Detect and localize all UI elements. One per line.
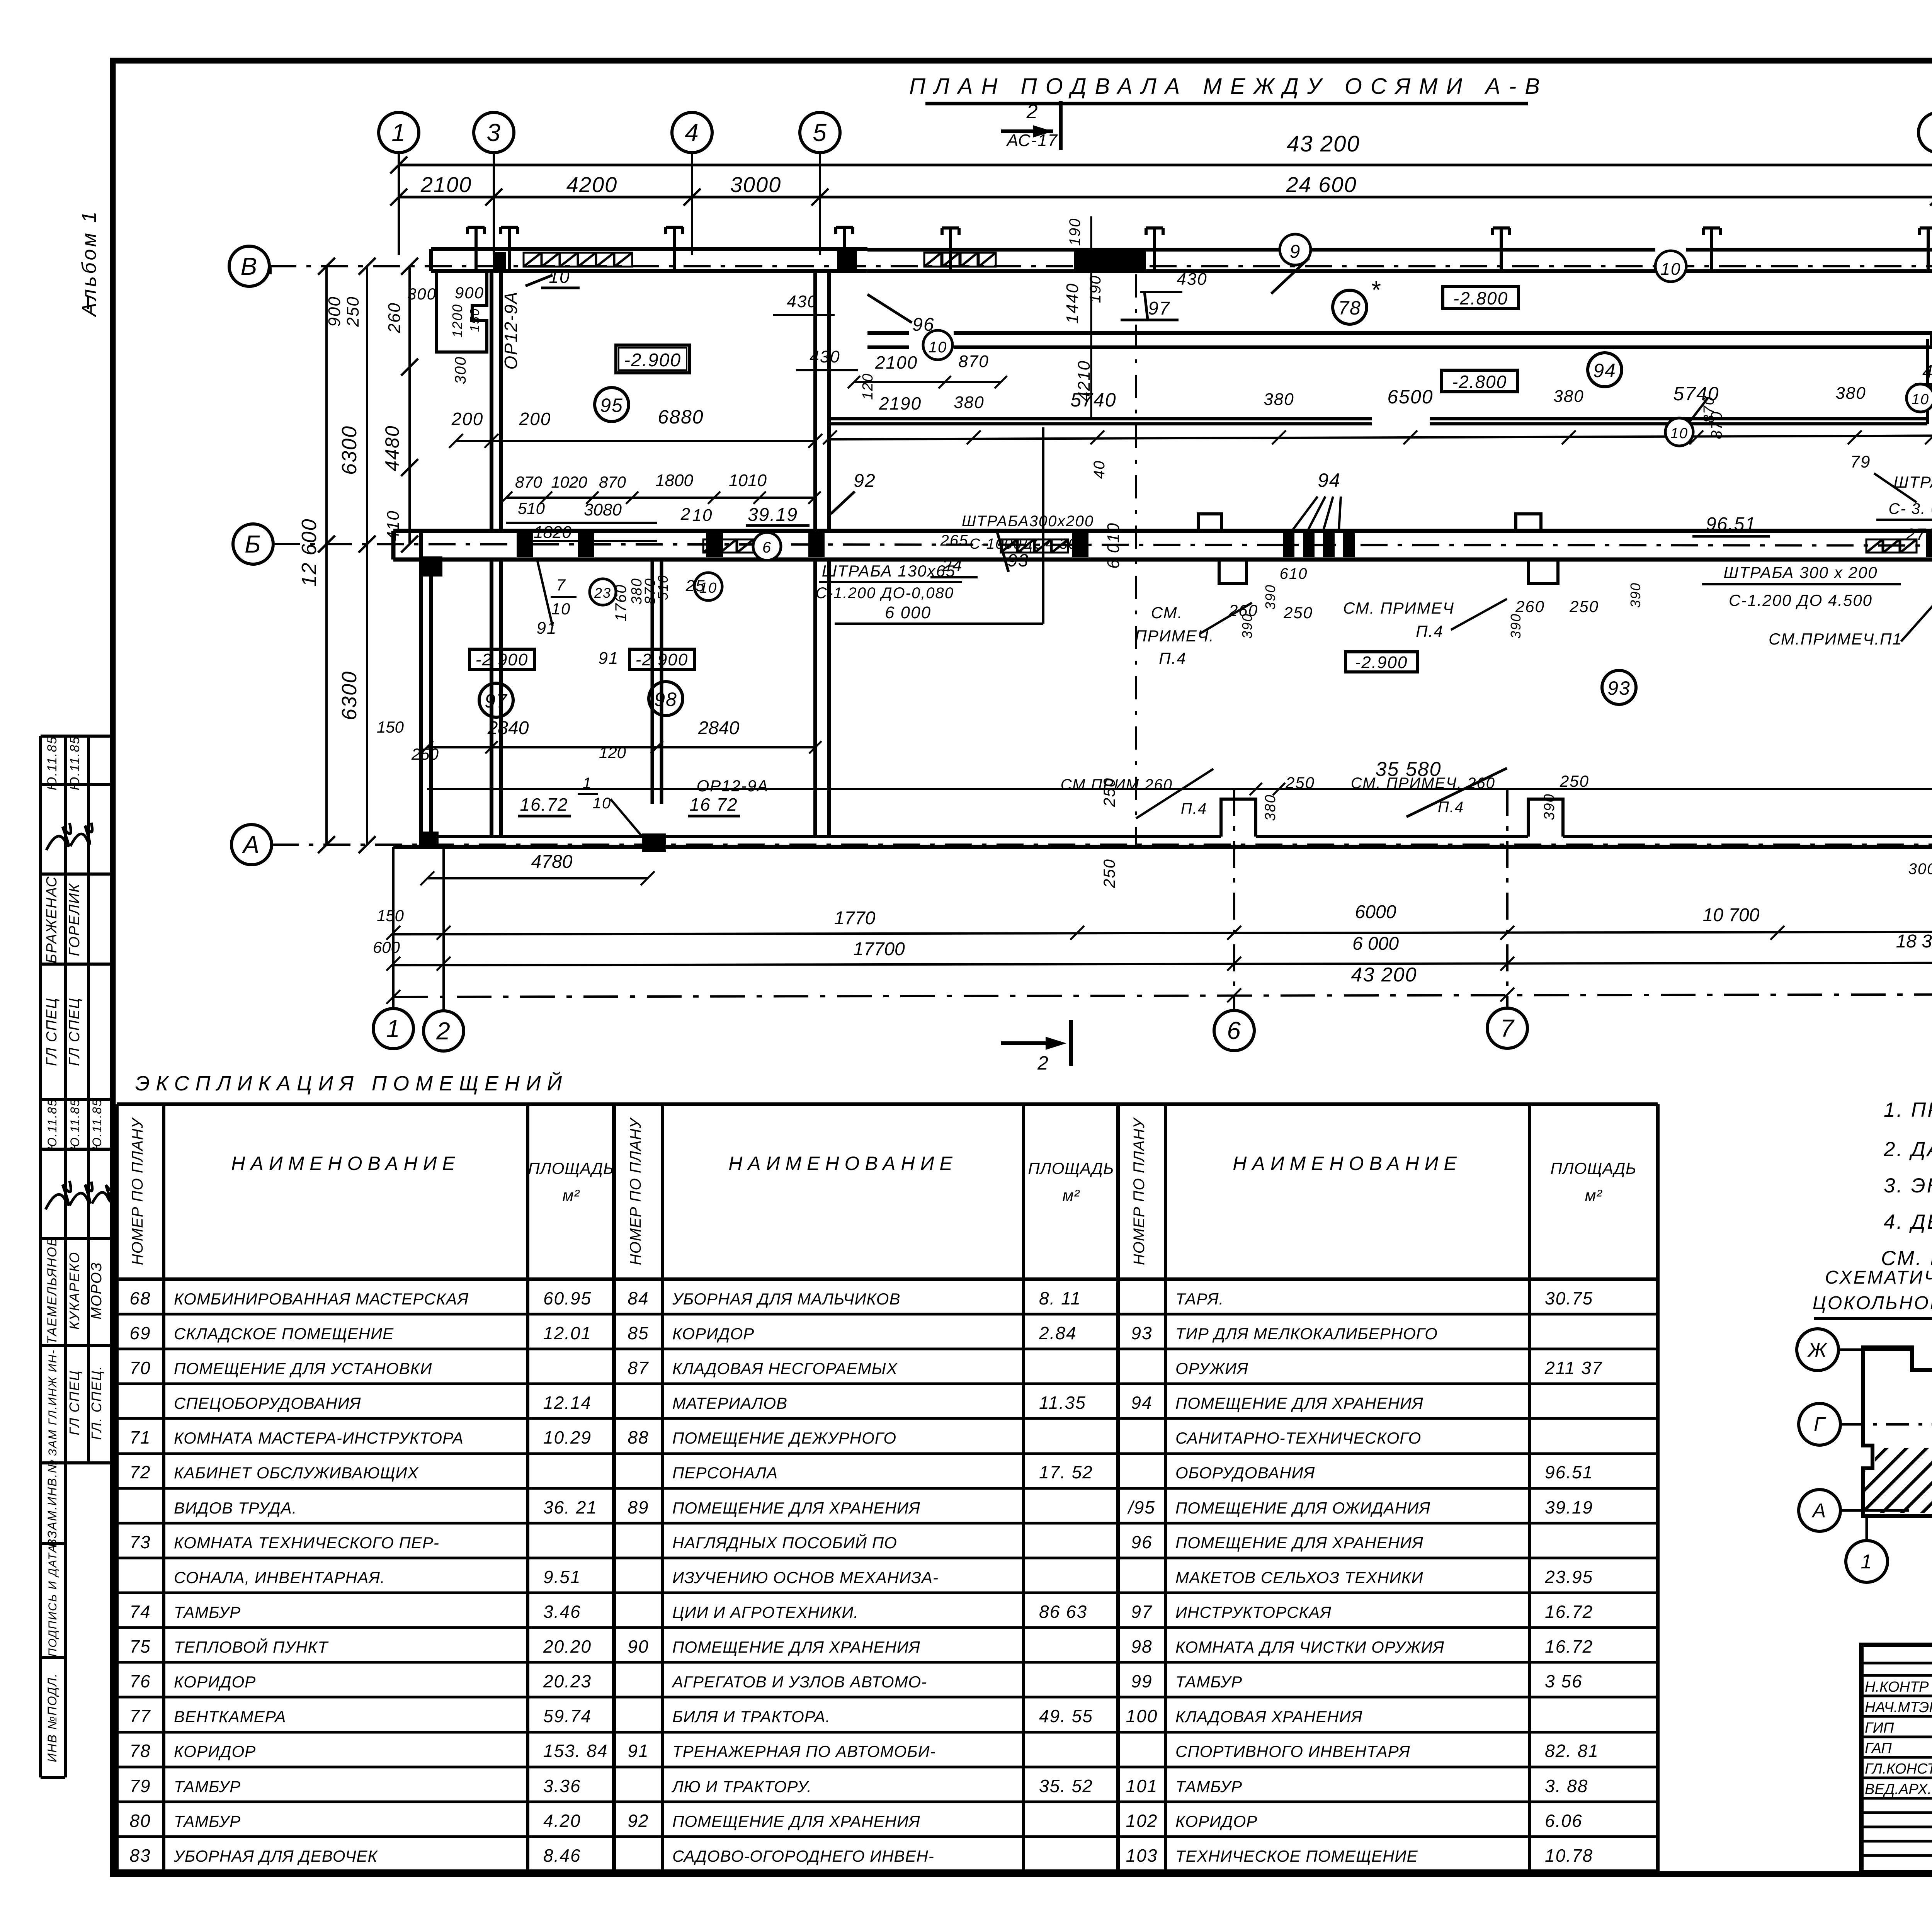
bottom axis bubbles	[373, 789, 1932, 1051]
svg-text:ПОМЕЩЕНИЕ ДЛЯ УСТАНОВКИ: ПОМЕЩЕНИЕ ДЛЯ УСТАНОВКИ	[174, 1359, 432, 1378]
svg-text:96: 96	[1131, 1532, 1152, 1552]
small circle 6 on B wall	[753, 532, 781, 560]
svg-text:КУКАРЕКО: КУКАРЕКО	[66, 1252, 82, 1330]
svg-text:Г: Г	[1814, 1413, 1826, 1436]
structural mark 10 corridor opening	[923, 330, 952, 360]
svg-text:ЗАМ ГЛ.ИНЖ ИН-: ЗАМ ГЛ.ИНЖ ИН-	[46, 1349, 59, 1456]
svg-text:АС-17: АС-17	[1006, 131, 1058, 150]
svg-text:16.72: 16.72	[520, 794, 568, 815]
svg-text:95: 95	[600, 395, 623, 416]
svg-text:6: 6	[762, 539, 772, 556]
labels 96 97 with leaders	[867, 292, 1179, 335]
svg-text:380: 380	[1835, 384, 1866, 403]
svg-text:870: 870	[599, 473, 626, 491]
svg-text:77: 77	[129, 1706, 151, 1726]
svg-text:250: 250	[1283, 604, 1313, 622]
svg-text:4210: 4210	[1075, 360, 1094, 401]
stamp label inv n podl	[45, 1673, 59, 1762]
svg-text:НАИМЕНОВАНИЕ: НАИМЕНОВАНИЕ	[1233, 1153, 1462, 1174]
svg-text:А: А	[241, 831, 260, 859]
svg-text:250: 250	[1100, 859, 1118, 888]
svg-text:3 56: 3 56	[1545, 1671, 1583, 1691]
svg-text:-2.800: -2.800	[1453, 288, 1508, 308]
svg-text:260: 260	[1515, 597, 1545, 616]
svg-text:200: 200	[451, 409, 484, 429]
svg-text:102: 102	[1126, 1811, 1158, 1831]
svg-text:6 000: 6 000	[1352, 934, 1399, 954]
svg-text:25: 25	[685, 577, 706, 595]
title block frame	[1861, 1645, 1932, 1872]
top axis bubbles	[379, 112, 1932, 255]
svg-text:В: В	[241, 252, 258, 280]
svg-text:КОРИДОР: КОРИДОР	[174, 1742, 256, 1760]
svg-text:Ж: Ж	[1807, 1339, 1828, 1361]
svg-text:35. 52: 35. 52	[1039, 1776, 1093, 1796]
svg-text:59.74: 59.74	[543, 1706, 592, 1726]
shtraba 300x200 right	[1702, 563, 1932, 648]
svg-text:10: 10	[593, 795, 612, 812]
svg-text:КОРИДОР: КОРИДОР	[1175, 1812, 1257, 1830]
svg-text:С-1000ДО4 300: С-1000ДО4 300	[969, 536, 1086, 552]
svg-text:3. 88: 3. 88	[1545, 1776, 1588, 1796]
svg-text:92: 92	[628, 1811, 649, 1831]
level box -2.800 room 94	[1442, 370, 1517, 392]
svg-text:86 63: 86 63	[1039, 1602, 1087, 1622]
svg-text:3.36: 3.36	[543, 1776, 581, 1796]
svg-text:260: 260	[385, 302, 404, 333]
svg-text:ПОМЕЩЕНИЕ ДЛЯ ХРАНЕНИЯ: ПОМЕЩЕНИЕ ДЛЯ ХРАНЕНИЯ	[672, 1638, 920, 1656]
top dim line axis spacings	[390, 172, 1932, 206]
corner niche detail top left	[407, 270, 487, 384]
svg-text:6 000: 6 000	[885, 603, 931, 622]
pilasters above south wall	[1221, 799, 1563, 837]
svg-text:1. ПРОЕМ ЗАКЛАДЫВАЕТСЯ НА ГЛИН: 1. ПРОЕМ ЗАКЛАДЫВАЕТСЯ НА ГЛИНЯНОМ РАСТВ…	[1884, 1099, 1932, 1121]
svg-text:КОРИДОР: КОРИДОР	[672, 1325, 754, 1343]
axis line B	[229, 242, 1932, 286]
svg-text:69: 69	[129, 1323, 151, 1343]
corner piers lower hall	[421, 556, 442, 849]
rotated dims near axis 5	[860, 216, 1104, 417]
title block left grid	[1861, 1645, 1932, 1872]
svg-text:-2 900: -2 900	[476, 650, 529, 669]
svg-text:250: 250	[1569, 597, 1599, 616]
structural mark 9 on north wall	[1271, 234, 1311, 294]
level box -2.900 room 97	[469, 649, 534, 669]
svg-text:ПОМЕЩЕНИЕ ДЛЯ ХРАНЕНИЯ: ПОМЕЩЕНИЕ ДЛЯ ХРАНЕНИЯ	[672, 1499, 920, 1517]
svg-text:98: 98	[1131, 1636, 1152, 1656]
svg-text:93: 93	[1007, 550, 1029, 570]
svg-text:24 600: 24 600	[1286, 172, 1357, 197]
svg-text:3080: 3080	[584, 500, 622, 519]
svg-text:1200: 1200	[449, 304, 465, 338]
svg-text:73: 73	[129, 1532, 151, 1552]
svg-text:Ю.11.85: Ю.11.85	[68, 1099, 82, 1150]
svg-text:НАИМЕНОВАНИЕ: НАИМЕНОВАНИЕ	[728, 1153, 958, 1174]
svg-text:23: 23	[594, 585, 611, 601]
label 94 with fan leaders	[1293, 469, 1341, 530]
svg-text:89: 89	[628, 1497, 649, 1517]
svg-text:ГЛ.КОНСТР.: ГЛ.КОНСТР.	[1865, 1761, 1932, 1777]
svg-text:САДОВО-ОГОРОДНЕГО ИНВЕН-: САДОВО-ОГОРОДНЕГО ИНВЕН-	[672, 1847, 934, 1865]
svg-text:4780: 4780	[531, 852, 573, 872]
svg-text:м²: м²	[1585, 1186, 1603, 1204]
small circle 10 room 94 right	[1665, 396, 1717, 446]
svg-text:ТАМБУР: ТАМБУР	[174, 1603, 241, 1621]
svg-text:4: 4	[685, 119, 699, 146]
svg-text:2: 2	[1026, 100, 1039, 123]
svg-text:АГРЕГАТОВ И УЗЛОВ АВТОМО-: АГРЕГАТОВ И УЗЛОВ АВТОМО-	[671, 1673, 927, 1691]
room label 78	[1333, 276, 1381, 324]
svg-text:САНИТАРНО-ТЕХНИЧЕСКОГО: САНИТАРНО-ТЕХНИЧЕСКОГО	[1175, 1429, 1421, 1447]
area label 49.60	[1915, 362, 1932, 384]
OR12-9A label left	[501, 267, 580, 370]
svg-text:ПОМЕЩЕНИЕ ДЛЯ ХРАНЕНИЯ: ПОМЕЩЕНИЕ ДЛЯ ХРАНЕНИЯ	[1175, 1534, 1423, 1552]
area label 96.51	[1692, 514, 1770, 536]
svg-text:430: 430	[1177, 270, 1207, 289]
svg-text:23.95: 23.95	[1544, 1567, 1593, 1587]
svg-text:250: 250	[1560, 772, 1589, 790]
svg-text:1440: 1440	[1063, 283, 1082, 324]
svg-text:ЦОКОЛЬНОГО ЭТАЖА И ПОДВАЛА.: ЦОКОЛЬНОГО ЭТАЖА И ПОДВАЛА.	[1813, 1293, 1932, 1313]
svg-text:2840: 2840	[487, 718, 529, 738]
small circle 10 near B wall	[694, 573, 722, 600]
svg-text:10: 10	[1670, 425, 1688, 442]
rotated dims 6010 40 250	[1091, 274, 1136, 888]
svg-text:Н.КОНТР: Н.КОНТР	[1865, 1679, 1929, 1695]
svg-text:10 700: 10 700	[1703, 905, 1760, 925]
svg-text:ТЕПЛОВОЙ ПУНКТ: ТЕПЛОВОЙ ПУНКТ	[174, 1638, 329, 1656]
svg-text:ГИП: ГИП	[1865, 1720, 1894, 1736]
svg-text:СМ.: СМ.	[1151, 604, 1183, 622]
svg-text:СМ. ПРИМЕЧ: СМ. ПРИМЕЧ	[1343, 599, 1454, 617]
svg-text:72: 72	[129, 1462, 151, 1482]
svg-text:НОМЕР ПО ПЛАНУ: НОМЕР ПО ПЛАНУ	[627, 1117, 644, 1265]
svg-text:ОР12-9А: ОР12-9А	[501, 291, 521, 369]
svg-text:80: 80	[129, 1811, 151, 1831]
svg-text:82. 81: 82. 81	[1545, 1741, 1599, 1761]
svg-text:1: 1	[391, 119, 406, 146]
svg-text:1020: 1020	[551, 473, 587, 491]
svg-text:76: 76	[129, 1671, 151, 1691]
bottom dim chain 2	[373, 931, 1932, 971]
svg-text:390: 390	[1262, 584, 1278, 610]
svg-text:ГЛ СПЕЦ: ГЛ СПЕЦ	[44, 997, 60, 1066]
svg-text:СПОРТИВНОГО ИНВЕНТАРЯ: СПОРТИВНОГО ИНВЕНТАРЯ	[1175, 1742, 1410, 1760]
svg-text:6.06: 6.06	[1545, 1811, 1583, 1831]
svg-text:91: 91	[628, 1741, 649, 1761]
schematic building outline	[1863, 1347, 1932, 1516]
svg-text:380: 380	[1553, 387, 1584, 406]
shtraba note room 92	[940, 513, 1094, 552]
svg-text:60.95: 60.95	[543, 1288, 592, 1308]
svg-text:91: 91	[599, 649, 619, 668]
dims 430 near axis 5	[773, 270, 1207, 370]
svg-text:250: 250	[411, 745, 439, 763]
svg-text:5: 5	[813, 119, 827, 146]
bottom dim 4780	[420, 852, 655, 885]
svg-text:СКЛАДСКОЕ ПОМЕЩЕНИЕ: СКЛАДСКОЕ ПОМЕЩЕНИЕ	[174, 1325, 394, 1343]
room label 97	[479, 683, 513, 717]
svg-text:11.35: 11.35	[1039, 1393, 1086, 1413]
album label	[78, 209, 100, 318]
section mark 2 bottom	[1001, 1020, 1071, 1074]
svg-text:ОБОРУДОВАНИЯ: ОБОРУДОВАНИЯ	[1175, 1464, 1315, 1482]
svg-text:380: 380	[1262, 794, 1279, 821]
explication table group 3	[1118, 1104, 1658, 1871]
svg-text:87: 87	[628, 1358, 649, 1378]
svg-text:ТРЕНАЖЕРНАЯ ПО АВТОМОБИ-: ТРЕНАЖЕРНАЯ ПО АВТОМОБИ-	[672, 1742, 936, 1760]
svg-text:49.60: 49.60	[1922, 362, 1932, 382]
svg-text:93: 93	[1131, 1323, 1152, 1343]
south wall (axis A)	[393, 829, 1932, 852]
svg-text:НОМЕР ПО ПЛАНУ: НОМЕР ПО ПЛАНУ	[1131, 1117, 1148, 1265]
svg-text:/95: /95	[1127, 1497, 1155, 1517]
svg-text:КЛАДОВАЯ НЕСГОРАЕМЫХ: КЛАДОВАЯ НЕСГОРАЕМЫХ	[672, 1359, 898, 1378]
svg-text:1800: 1800	[655, 471, 693, 490]
svg-text:ТАМБУР: ТАМБУР	[174, 1812, 241, 1830]
schematic hatching	[1816, 1437, 1932, 1519]
svg-text:8. 11: 8. 11	[1039, 1288, 1081, 1308]
svg-text:12.01: 12.01	[543, 1323, 592, 1343]
svg-text:12.14: 12.14	[543, 1393, 592, 1413]
area labels 16.72	[518, 775, 769, 837]
svg-text:А: А	[1811, 1500, 1827, 1522]
north wall left block	[431, 249, 867, 271]
svg-text:97: 97	[1131, 1602, 1152, 1622]
see note p4 upper right	[1343, 582, 1643, 640]
svg-text:ИНСТРУКТОРСКАЯ: ИНСТРУКТОРСКАЯ	[1175, 1603, 1332, 1621]
svg-text:870: 870	[958, 352, 989, 371]
svg-text:НАИМЕНОВАНИЕ: НАИМЕНОВАНИЕ	[231, 1153, 461, 1174]
svg-text:380: 380	[954, 393, 984, 412]
svg-text:2840: 2840	[698, 718, 740, 738]
svg-text:7: 7	[1500, 1014, 1515, 1042]
svg-text:6 010: 6 010	[1104, 522, 1123, 569]
explication table group 1	[117, 1104, 614, 1871]
svg-text:83: 83	[129, 1845, 151, 1866]
svg-text:2.84: 2.84	[1039, 1323, 1077, 1343]
svg-text:96: 96	[912, 315, 934, 335]
small labels 24 93 on B wall	[930, 531, 1029, 577]
svg-text:ГОРЕЛИК: ГОРЕЛИК	[66, 883, 83, 956]
svg-text:НОМЕР ПО ПЛАНУ: НОМЕР ПО ПЛАНУ	[129, 1117, 146, 1265]
room label 94	[1588, 353, 1622, 387]
label 7 23 10 91 cluster	[537, 560, 706, 638]
see note p4 upper left	[1135, 565, 1313, 667]
svg-text:НАГЛЯДНЫХ ПОСОБИЙ ПО: НАГЛЯДНЫХ ПОСОБИЙ ПО	[672, 1533, 897, 1552]
svg-text:94: 94	[1318, 469, 1341, 491]
svg-text:1820: 1820	[534, 523, 571, 542]
svg-text:43 200: 43 200	[1287, 131, 1360, 156]
dim row 2840 rooms 97 98	[377, 718, 821, 763]
svg-text:МОРОЗ: МОРОЗ	[88, 1262, 105, 1319]
svg-text:98: 98	[654, 689, 677, 710]
svg-text:49. 55: 49. 55	[1039, 1706, 1093, 1726]
svg-text:17. 52: 17. 52	[1039, 1462, 1093, 1482]
svg-text:1770: 1770	[834, 908, 876, 929]
svg-text:ЭКСПЛИКАЦИЯ ПОМЕЩЕНИЙ: ЭКСПЛИКАЦИЯ ПОМЕЩЕНИЙ	[135, 1071, 568, 1095]
svg-text:3: 3	[486, 119, 501, 146]
middle wall (axis Б)	[393, 531, 1932, 574]
svg-text:91: 91	[537, 619, 557, 638]
shtraba 530x200 block	[1708, 411, 1932, 557]
metal stair detail	[1908, 786, 1932, 938]
svg-text:71: 71	[129, 1427, 151, 1447]
svg-text:190: 190	[1087, 275, 1104, 303]
svg-text:ОРУЖИЯ: ОРУЖИЯ	[1175, 1359, 1248, 1378]
see note p4 left pilaster	[1061, 769, 1315, 821]
svg-text:510: 510	[655, 575, 671, 600]
svg-text:18 300: 18 300	[1896, 931, 1932, 952]
svg-text:КОРИДОР: КОРИДОР	[174, 1673, 256, 1691]
svg-text:ТАЕМЕЛЬЯНОВ: ТАЕМЕЛЬЯНОВ	[45, 1237, 60, 1345]
svg-text:250: 250	[1285, 774, 1315, 792]
svg-text:96.51: 96.51	[1545, 1462, 1593, 1482]
level box -2.900 room 95	[616, 345, 689, 373]
svg-text:СМ.ПРИМЕЧ.П1: СМ.ПРИМЕЧ.П1	[1769, 630, 1902, 648]
svg-text:ТЕХНИЧЕСКОЕ ПОМЕЩЕНИЕ: ТЕХНИЧЕСКОЕ ПОМЕЩЕНИЕ	[1175, 1847, 1418, 1865]
svg-text:6880: 6880	[658, 406, 704, 428]
svg-text:ПОДПИСЬ И ДАТА: ПОДПИСЬ И ДАТА	[46, 1544, 59, 1656]
svg-text:ПЛАН ПОДВАЛА МЕЖДУ ОСЯМИ А-В: ПЛАН ПОДВАЛА МЕЖДУ ОСЯМИ А-В	[909, 74, 1548, 99]
svg-text:3.46: 3.46	[543, 1602, 581, 1622]
svg-text:101: 101	[1126, 1776, 1158, 1796]
west wall of lower hall	[421, 531, 431, 847]
svg-text:КОМНАТА МАСТЕРА-ИНСТРУКТОРА: КОМНАТА МАСТЕРА-ИНСТРУКТОРА	[174, 1429, 464, 1447]
svg-text:2100: 2100	[420, 172, 472, 197]
svg-text:МАТЕРИАЛОВ: МАТЕРИАЛОВ	[672, 1394, 787, 1412]
svg-text:ПОМЕЩЕНИЕ ДЛЯ ХРАНЕНИЯ: ПОМЕЩЕНИЕ ДЛЯ ХРАНЕНИЯ	[1175, 1394, 1423, 1412]
schematic plan caption	[1813, 1267, 1932, 1318]
svg-text:П.4: П.4	[1159, 649, 1186, 667]
svg-text:10.29: 10.29	[543, 1427, 592, 1447]
svg-text:ПОМЕЩЕНИЕ ДЕЖУРНОГО: ПОМЕЩЕНИЕ ДЕЖУРНОГО	[672, 1429, 896, 1447]
svg-text:ТАРЯ.: ТАРЯ.	[1175, 1290, 1224, 1308]
svg-text:4.20: 4.20	[543, 1811, 581, 1831]
svg-text:300: 300	[407, 285, 437, 303]
svg-text:250: 250	[344, 296, 362, 327]
svg-text:ПЛОЩАДЬ: ПЛОЩАДЬ	[1028, 1159, 1114, 1177]
corridor 78 south wall	[867, 250, 1932, 347]
svg-text:10: 10	[929, 339, 947, 356]
left vertical dim chains	[270, 258, 418, 853]
svg-text:МАКЕТОВ СЕЛЬХОЗ ТЕХНИКИ: МАКЕТОВ СЕЛЬХОЗ ТЕХНИКИ	[1175, 1568, 1423, 1587]
svg-text:8.46: 8.46	[543, 1845, 581, 1866]
schematic axis bubbles	[1797, 1329, 1932, 1583]
svg-text:ПОМЕЩЕНИЕ ДЛЯ ОЖИДАНИЯ: ПОМЕЩЕНИЕ ДЛЯ ОЖИДАНИЯ	[1175, 1499, 1430, 1517]
svg-text:150: 150	[377, 718, 404, 736]
svg-text:м²: м²	[563, 1186, 580, 1204]
svg-text:120: 120	[860, 373, 876, 400]
svg-text:10: 10	[551, 600, 571, 618]
svg-text:9.51: 9.51	[543, 1567, 581, 1587]
svg-text:ИНВ №ПОДЛ.: ИНВ №ПОДЛ.	[45, 1673, 59, 1762]
svg-text:40: 40	[1091, 460, 1108, 479]
svg-text:43 200: 43 200	[1351, 964, 1417, 986]
svg-text:ПЕРСОНАЛА: ПЕРСОНАЛА	[672, 1464, 778, 1482]
svg-text:78: 78	[129, 1741, 151, 1761]
svg-text:39.19: 39.19	[748, 505, 798, 525]
svg-text:ТАМБУР: ТАМБУР	[1175, 1777, 1242, 1796]
svg-text:СОНАЛА, ИНВЕНТАРНАЯ.: СОНАЛА, ИНВЕНТАРНАЯ.	[174, 1568, 385, 1587]
room 94 south wall	[831, 339, 1932, 424]
svg-text:м²: м²	[1063, 1186, 1080, 1204]
svg-text:Ю.11.85: Ю.11.85	[45, 736, 60, 791]
svg-text:211 37: 211 37	[1544, 1358, 1602, 1378]
svg-text:300: 300	[1908, 861, 1932, 878]
svg-text:20.20: 20.20	[543, 1636, 592, 1656]
svg-text:*: *	[1371, 276, 1381, 304]
pilasters above middle wall	[1198, 514, 1541, 531]
svg-text:74: 74	[129, 1602, 151, 1622]
svg-text:78: 78	[1338, 297, 1361, 319]
north wall pilaster marks left	[468, 227, 853, 271]
left room dim rows	[500, 471, 821, 542]
svg-text:ШТРАБА 300 х 200: ШТРАБА 300 х 200	[1723, 563, 1878, 582]
svg-text:24: 24	[942, 556, 963, 575]
axis line A	[231, 825, 1932, 865]
bottom dim chain 43200	[386, 964, 1932, 1004]
svg-text:150: 150	[468, 308, 482, 332]
svg-text:НАЧ.МТЭП: НАЧ.МТЭП	[1865, 1699, 1932, 1716]
wall on axis 3	[492, 270, 501, 837]
svg-text:153. 84: 153. 84	[543, 1741, 608, 1761]
svg-text:ВЕД.АРХ.: ВЕД.АРХ.	[1865, 1781, 1932, 1798]
svg-text:С-1.200 ДО 4.500: С-1.200 ДО 4.500	[1729, 591, 1872, 609]
svg-text:10.78: 10.78	[1545, 1845, 1593, 1866]
svg-text:ПЛОЩАДЬ: ПЛОЩАДЬ	[1550, 1159, 1636, 1177]
svg-text:6000: 6000	[1355, 902, 1396, 922]
svg-text:79: 79	[129, 1776, 151, 1796]
svg-text:36. 21: 36. 21	[543, 1497, 597, 1517]
svg-text:70: 70	[129, 1358, 151, 1378]
svg-text:1: 1	[1861, 1551, 1873, 1573]
svg-text:94: 94	[1593, 360, 1616, 381]
dim row under corridor (long)	[449, 381, 1932, 448]
svg-text:ЛЮ И ТРАКТОРУ.: ЛЮ И ТРАКТОРУ.	[671, 1777, 812, 1796]
section mark 2 / AC-17	[1001, 100, 1061, 150]
svg-text:92: 92	[854, 471, 876, 491]
north wall middle band	[867, 250, 1932, 272]
dim 35580 line	[427, 758, 1932, 789]
svg-text:10: 10	[1661, 260, 1681, 279]
svg-text:90: 90	[628, 1636, 649, 1656]
left margin stamp block	[41, 736, 112, 1777]
svg-text:3000: 3000	[730, 172, 782, 197]
svg-text:84: 84	[628, 1288, 649, 1308]
svg-text:99: 99	[1131, 1671, 1152, 1691]
top dim line 43200	[390, 131, 1932, 173]
svg-text:16 72: 16 72	[689, 794, 738, 815]
bottom dim chain 1	[377, 902, 1932, 940]
svg-text:С- 3. 000ДО 4 500: С- 3. 000ДО 4 500	[1888, 500, 1932, 517]
svg-text:88: 88	[628, 1427, 649, 1447]
svg-text:10: 10	[692, 506, 713, 525]
svg-text:85: 85	[628, 1323, 649, 1343]
svg-text:2100: 2100	[875, 352, 918, 372]
svg-text:39.19: 39.19	[1545, 1497, 1593, 1517]
svg-text:БРАЖЕНАС: БРАЖЕНАС	[44, 876, 60, 964]
svg-text:1010: 1010	[729, 471, 767, 490]
svg-text:2190: 2190	[879, 393, 922, 413]
svg-text:68: 68	[129, 1288, 151, 1308]
svg-text:390: 390	[1628, 582, 1643, 608]
svg-text:96.51: 96.51	[1706, 514, 1756, 534]
see note p4 right pilaster	[1351, 768, 1589, 820]
shtraba note 130x65	[816, 427, 1043, 624]
svg-text:-2.900: -2.900	[1355, 653, 1408, 672]
svg-text:УБОРНАЯ ДЛЯ ДЕВОЧЕК: УБОРНАЯ ДЛЯ ДЕВОЧЕК	[173, 1847, 378, 1865]
